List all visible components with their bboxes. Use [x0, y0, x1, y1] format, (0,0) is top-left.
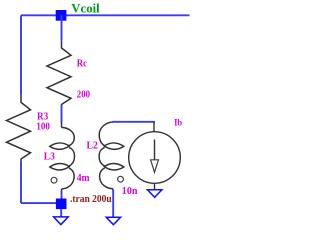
svg-text:4m: 4m: [77, 172, 90, 184]
wire node to ground: [60, 209, 62, 217]
svg-text:L2: L2: [87, 139, 98, 151]
wire left vertical: [20, 15, 22, 95]
wire node to Rc: [61, 15, 63, 40]
node bottom junction square: [56, 199, 67, 210]
svg-text:200: 200: [77, 88, 90, 100]
svg-text:100: 100: [36, 122, 50, 133]
wire bottom left vertical: [20, 162, 22, 203]
svg-text:Rc: Rc: [77, 59, 88, 70]
inductor L2: [99, 122, 124, 191]
L2 phase dot: [118, 176, 124, 182]
wire L2 top to current source: [113, 122, 155, 123]
ground left: [54, 217, 69, 225]
wire bottom horizontal: [21, 202, 58, 204]
current source Ib: [129, 123, 181, 190]
ground right: [147, 190, 162, 198]
svg-text:L3: L3: [44, 152, 55, 163]
svg-text:10n: 10n: [122, 186, 138, 197]
svg-text:Ib: Ib: [174, 119, 182, 129]
resistor R3: [7, 95, 31, 162]
svg-text:Vcoil: Vcoil: [71, 2, 100, 16]
node Vcoil junction square: [56, 10, 67, 21]
wire top horizontal Vcoil net: [21, 14, 190, 16]
svg-text:.tran 200u: .tran 200u: [70, 194, 112, 205]
L3 phase dot: [51, 177, 57, 183]
Ib arrow head: [151, 160, 159, 173]
wire L2 bottom to ground: [112, 190, 114, 217]
resistor Rc: [47, 41, 71, 106]
wire Rc to L3: [61, 105, 63, 122]
ground middle: [106, 217, 120, 225]
inductor L3: [50, 122, 75, 192]
wire L3 to bottom node: [61, 191, 63, 200]
